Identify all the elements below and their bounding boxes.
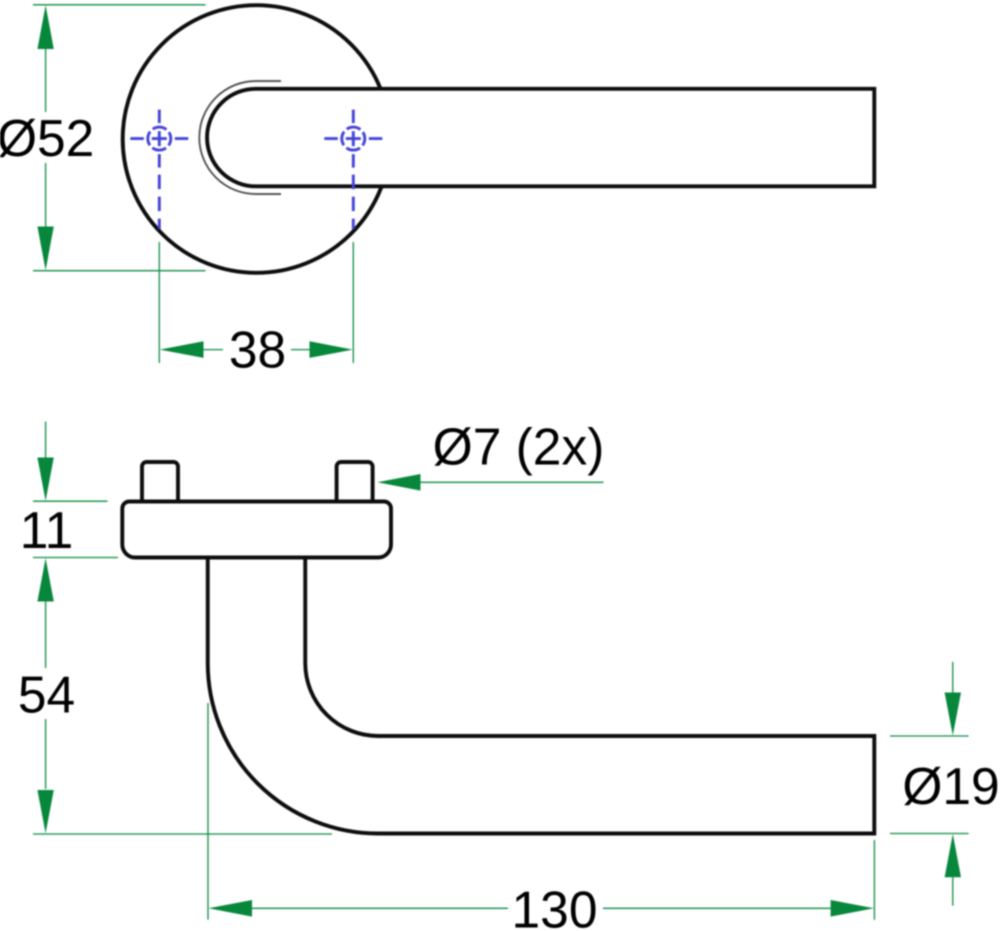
dimension 130 line and arrows (252, 907, 831, 909)
lever handle front view (stadium shape) (207, 89, 874, 187)
svg-text:54: 54 (18, 666, 75, 724)
rose (round escutcheon) front view (123, 5, 391, 273)
center line drop from mark 2 (352, 175, 355, 229)
screw boss pin 1 side view (142, 462, 178, 503)
dimension 54 line and arrow (45, 602, 47, 669)
screw hole center mark 1 (130, 110, 188, 168)
rose plate side view (122, 502, 391, 558)
lever handle side view (neck, elbow and grip tube) (208, 558, 875, 834)
svg-text:11: 11 (20, 501, 73, 559)
label Ø7 (2x) leader (421, 481, 604, 483)
dimension 54 extension line (33, 833, 332, 835)
svg-text:130: 130 (512, 881, 598, 931)
screw hole center mark 2 (324, 110, 382, 168)
svg-text:Ø52: Ø52 (0, 109, 94, 167)
dimension Ø19 arrows (952, 662, 954, 693)
dimension 38 extension lines (159, 242, 353, 363)
dimension Ø52 extension lines (33, 5, 206, 271)
dimension 38 line and arrows (204, 349, 310, 351)
svg-text:Ø7 (2x): Ø7 (2x) (433, 418, 605, 476)
collar arc behind lever cap (199, 81, 281, 194)
center line drop from mark 1 (158, 175, 161, 229)
dimension 11 extension lines (33, 501, 118, 557)
screw boss pin 2 side view (337, 462, 373, 503)
dimension Ø52 line and arrows (37, 5, 53, 270)
dimension 130 extension lines (208, 703, 874, 920)
svg-text:38: 38 (229, 321, 286, 379)
svg-text:Ø19: Ø19 (902, 757, 999, 815)
dimension 11 arrows (45, 422, 47, 460)
dimension Ø19 extension lines (890, 736, 969, 834)
